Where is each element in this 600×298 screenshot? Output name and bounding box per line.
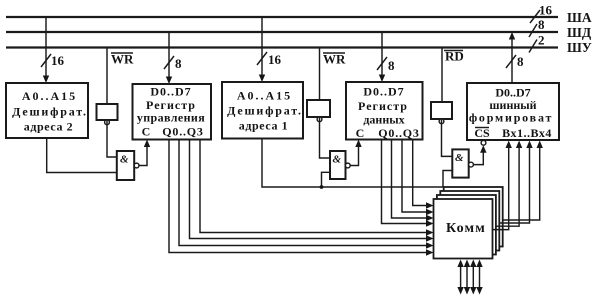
wire Вх3 шинный формирователь to Комм layer 3 (arrow up) [499, 141, 532, 224]
wire инвертор WR left to AND left [107, 121, 117, 158]
gate AND left (C of регистр управления) [117, 151, 139, 180]
svg-text:WR: WR [111, 52, 134, 67]
wire дешифратор адреса 2 to AND left [47, 138, 117, 173]
bus ШД (data bus line) [6, 31, 558, 33]
svg-text:8: 8 [175, 56, 182, 71]
svg-text:16: 16 [539, 3, 553, 18]
svg-text:Q0..Q3: Q0..Q3 [378, 126, 419, 140]
svg-text:ША: ША [567, 10, 592, 25]
svg-text:Вх1..Вх4: Вх1..Вх4 [502, 126, 552, 140]
wire Q2 регистр данных to Комм [402, 140, 434, 216]
svg-text:С: С [142, 125, 151, 139]
wire Комм output 3 (bidirectional arrow) [470, 260, 476, 295]
wire Комм output 4 (bidirectional arrow) [476, 260, 482, 295]
wire AND left to C регистр управления (arrow up) [139, 140, 150, 166]
wire tap ША to дешифратор адреса 2, width 16 [41, 17, 65, 83]
block Комм front layer [434, 199, 493, 259]
block дешифратор адреса 2 [6, 83, 88, 138]
svg-text:А0..А15: А0..А15 [22, 89, 77, 103]
svg-text:адреса 2: адреса 2 [24, 120, 74, 134]
svg-text:данных: данных [363, 113, 404, 127]
label bus ША [567, 10, 592, 25]
wire Комм output 2 (bidirectional arrow) [464, 260, 470, 295]
wire инвертор WR right to AND middle [320, 118, 331, 159]
inverter WR right (box with bubble) [307, 100, 330, 122]
block дешифратор адреса 1 [222, 82, 303, 139]
inverter WR left (box with bubble) [97, 104, 118, 125]
wire инвертор RD to AND right [442, 120, 453, 157]
block Комм layer 4 (back) [444, 187, 503, 247]
svg-text:16: 16 [268, 52, 282, 67]
svg-text:D0..D7: D0..D7 [363, 85, 404, 99]
svg-text:А0..А15: А0..А15 [237, 89, 292, 103]
svg-text:16: 16 [51, 53, 65, 68]
wire tap ШД to регистр данных, width 8 [377, 32, 395, 82]
svg-text:&: & [333, 154, 342, 166]
svg-text:формироват: формироват [469, 111, 553, 125]
wire дешифратор адреса 1 to AND middle and AND right [262, 139, 452, 189]
wire Q2 регистр управления to Комм [190, 140, 434, 242]
wire tap ШД to регистр управления, width 8 [164, 32, 182, 84]
wire tap ШУ to инвертор WR (правый) [320, 48, 347, 101]
block шинный формирователь [467, 83, 559, 145]
svg-text:&: & [120, 154, 129, 166]
svg-text:Дешифрат.: Дешифрат. [227, 104, 303, 118]
wire Q1 регистр управления to Комм [179, 140, 434, 249]
gate AND right (CS of шинный формирователь) [452, 149, 473, 177]
wire tap ШУ to инвертор WR (левый) [107, 48, 134, 105]
wire Q0 регистр данных to Комм [382, 140, 434, 227]
svg-text:адреса 1: адреса 1 [239, 119, 289, 133]
block регистр управления [133, 84, 212, 140]
svg-text:Регистр: Регистр [358, 99, 408, 113]
wire tap ША to дешифратор адреса 1, width 16 [257, 17, 282, 82]
block регистр данных [346, 82, 423, 140]
svg-text:ШУ: ШУ [567, 40, 592, 55]
wire AND right to CS шинный формирователь (arrow up) [473, 145, 486, 164]
svg-text:8: 8 [388, 58, 395, 73]
svg-text:Дешифрат.: Дешифрат. [12, 105, 88, 119]
svg-text:управления: управления [137, 111, 205, 125]
wire Q3 регистр данных to Комм [413, 140, 434, 209]
wire Комм output 1 (bidirectional arrow) [457, 260, 463, 295]
svg-text:8: 8 [538, 17, 545, 32]
svg-text:Q0..Q3: Q0..Q3 [162, 125, 203, 139]
bus ШУ (control bus line) [6, 46, 558, 48]
bus width mark 8 on ШД [529, 17, 545, 37]
svg-text:D0..D7: D0..D7 [150, 85, 191, 99]
block Комм layer 3 [440, 191, 499, 251]
label bus ШУ [567, 40, 592, 55]
svg-text:8: 8 [517, 54, 524, 69]
svg-text:&: & [455, 152, 464, 164]
label bus ШД [567, 25, 592, 40]
svg-text:2: 2 [538, 33, 545, 48]
bus width mark 16 on ША [530, 3, 553, 24]
wire AND middle to C регистр данных (arrow up) [350, 140, 361, 166]
wire tap ШУ to инвертор RD [442, 48, 464, 103]
svg-text:Комм: Комм [446, 221, 486, 236]
bus width mark 2 on ШУ [529, 33, 545, 53]
inverter RD (box with bubble) [431, 102, 452, 124]
svg-text:RD: RD [445, 49, 464, 64]
svg-text:С: С [356, 126, 365, 140]
gate AND middle (C of регистр данных) [330, 151, 350, 179]
svg-text:WR: WR [323, 52, 346, 67]
wire Q3 регистр управления to Комм [200, 140, 434, 236]
wire Вх1 шинный формирователь to Комм front layer (arrow up) [493, 141, 512, 230]
wire Q1 регистр данных to Комм [392, 140, 434, 222]
wire Q0 регистр управления to Комм [169, 140, 434, 256]
wire шинный формирователь to ШД, width 8, arrow up [506, 32, 524, 83]
wire Вх2 шинный формирователь to Комм layer 2 (arrow up) [496, 141, 522, 227]
svg-text:ШД: ШД [567, 25, 592, 40]
wire Вх4 шинный формирователь to Комм layer 4 (arrow up) [503, 141, 543, 221]
block Комм layer 2 [437, 195, 496, 255]
bus ША (address bus line) [6, 16, 558, 18]
